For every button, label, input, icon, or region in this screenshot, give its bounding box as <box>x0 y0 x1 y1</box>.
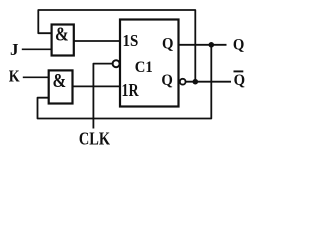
junction on Q line <box>209 42 215 48</box>
wire Q output <box>178 44 227 46</box>
overbar of output label Q-bar <box>234 70 244 72</box>
junction on Q-bar line <box>193 79 199 85</box>
svg-text:&: & <box>55 23 69 45</box>
wire K input <box>23 76 49 78</box>
wire CLK to C1 <box>93 64 112 129</box>
inversion bubble on Q-bar output <box>180 79 186 85</box>
svg-text:Q: Q <box>162 36 174 52</box>
svg-text:1R: 1R <box>122 82 139 101</box>
wire G1 output to 1S <box>74 40 120 42</box>
feedback wire Q-bar to G1 top input <box>38 10 195 82</box>
svg-text:K: K <box>9 67 20 85</box>
svg-text:&: & <box>53 69 67 91</box>
svg-text:Q: Q <box>161 72 173 88</box>
inversion bubble on C1 clock input <box>113 60 120 67</box>
wire J input <box>22 48 51 50</box>
and-gate G1 (J, Q-bar) <box>52 25 74 56</box>
svg-text:C1: C1 <box>135 58 153 76</box>
feedback wire Q to G2 lower input <box>38 45 212 119</box>
wire Q-bar output <box>186 81 231 83</box>
and-gate G2 (K, Q) <box>49 70 73 103</box>
svg-text:Q: Q <box>234 72 246 88</box>
svg-text:1S: 1S <box>123 32 139 50</box>
svg-text:CLK: CLK <box>79 128 110 149</box>
latch U1 (gated SR latch) <box>120 20 179 107</box>
svg-text:J: J <box>10 40 19 59</box>
svg-text:Q: Q <box>233 37 245 53</box>
wire G2 output to 1R <box>73 85 121 87</box>
